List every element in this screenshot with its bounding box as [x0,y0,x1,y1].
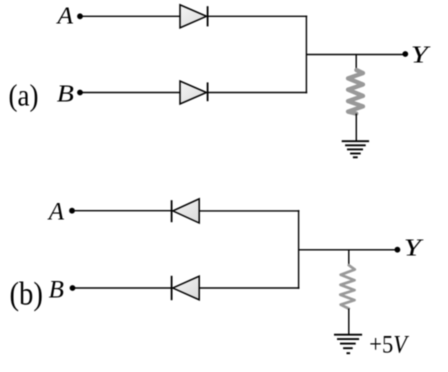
svg-text:Y: Y [404,234,424,261]
svg-text:+5V: +5V [369,331,409,358]
svg-text:B: B [57,80,74,107]
svg-text:(a): (a) [9,79,39,113]
svg-text:A: A [55,3,74,29]
svg-text:A: A [47,199,65,226]
svg-text:(b): (b) [10,275,43,312]
svg-text:B: B [49,277,64,304]
svg-text:Y: Y [411,41,431,68]
